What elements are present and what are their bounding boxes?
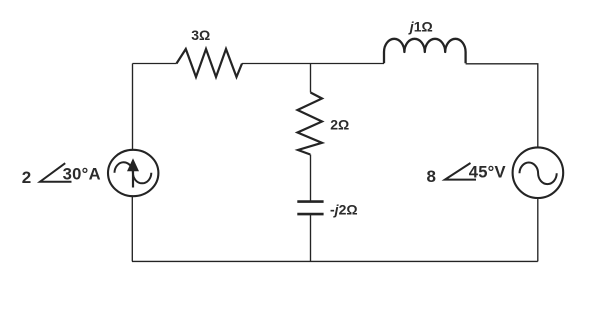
resistor R2 2 ohm vertical zigzag [298, 93, 323, 155]
capacitor C1 top plate [297, 200, 323, 203]
wire: inductor L1 to top-right corner down to voltage source [466, 64, 538, 148]
current source sine symbol [115, 162, 152, 183]
wire: resistor R2 to capacitor C1 [310, 155, 312, 202]
current source IS1 circle [108, 150, 158, 196]
wire: voltage source bottom to bottom-right corner [537, 198, 539, 261]
wire: capacitor C1 to bottom rail [310, 215, 312, 262]
svg-text:-j2Ω: -j2Ω [330, 202, 358, 218]
angle symbol for current source [40, 163, 72, 182]
inductor L1 j1 ohm (4 humps) [384, 39, 466, 64]
wire: resistor R1 to inductor L1 (through node A) [242, 63, 384, 65]
svg-text:2: 2 [22, 168, 31, 187]
wire: bottom rail [132, 260, 538, 262]
voltage source VS1 circle [513, 147, 564, 198]
svg-text:3Ω: 3Ω [191, 27, 210, 43]
current source arrow shaft [132, 167, 134, 188]
wire: current source bottom to bottom-left corner [131, 197, 133, 261]
current source arrow head [127, 158, 139, 171]
resistor R1 3 ohm horizontal zigzag [177, 49, 243, 77]
voltage source sine symbol [520, 162, 557, 184]
svg-text:30°A: 30°A [63, 164, 101, 183]
wire: node A down to resistor R2 [310, 64, 312, 93]
wire: top-left corner to resistor R1 [133, 63, 177, 65]
capacitor C1 bottom plate [297, 213, 323, 216]
wire: top-left corner down to current source [132, 64, 134, 150]
svg-text:j1Ω: j1Ω [408, 19, 433, 35]
svg-text:45°V: 45°V [469, 163, 506, 182]
svg-text:2Ω: 2Ω [330, 116, 349, 132]
angle symbol for voltage source [445, 163, 476, 180]
svg-text:8: 8 [427, 167, 436, 186]
